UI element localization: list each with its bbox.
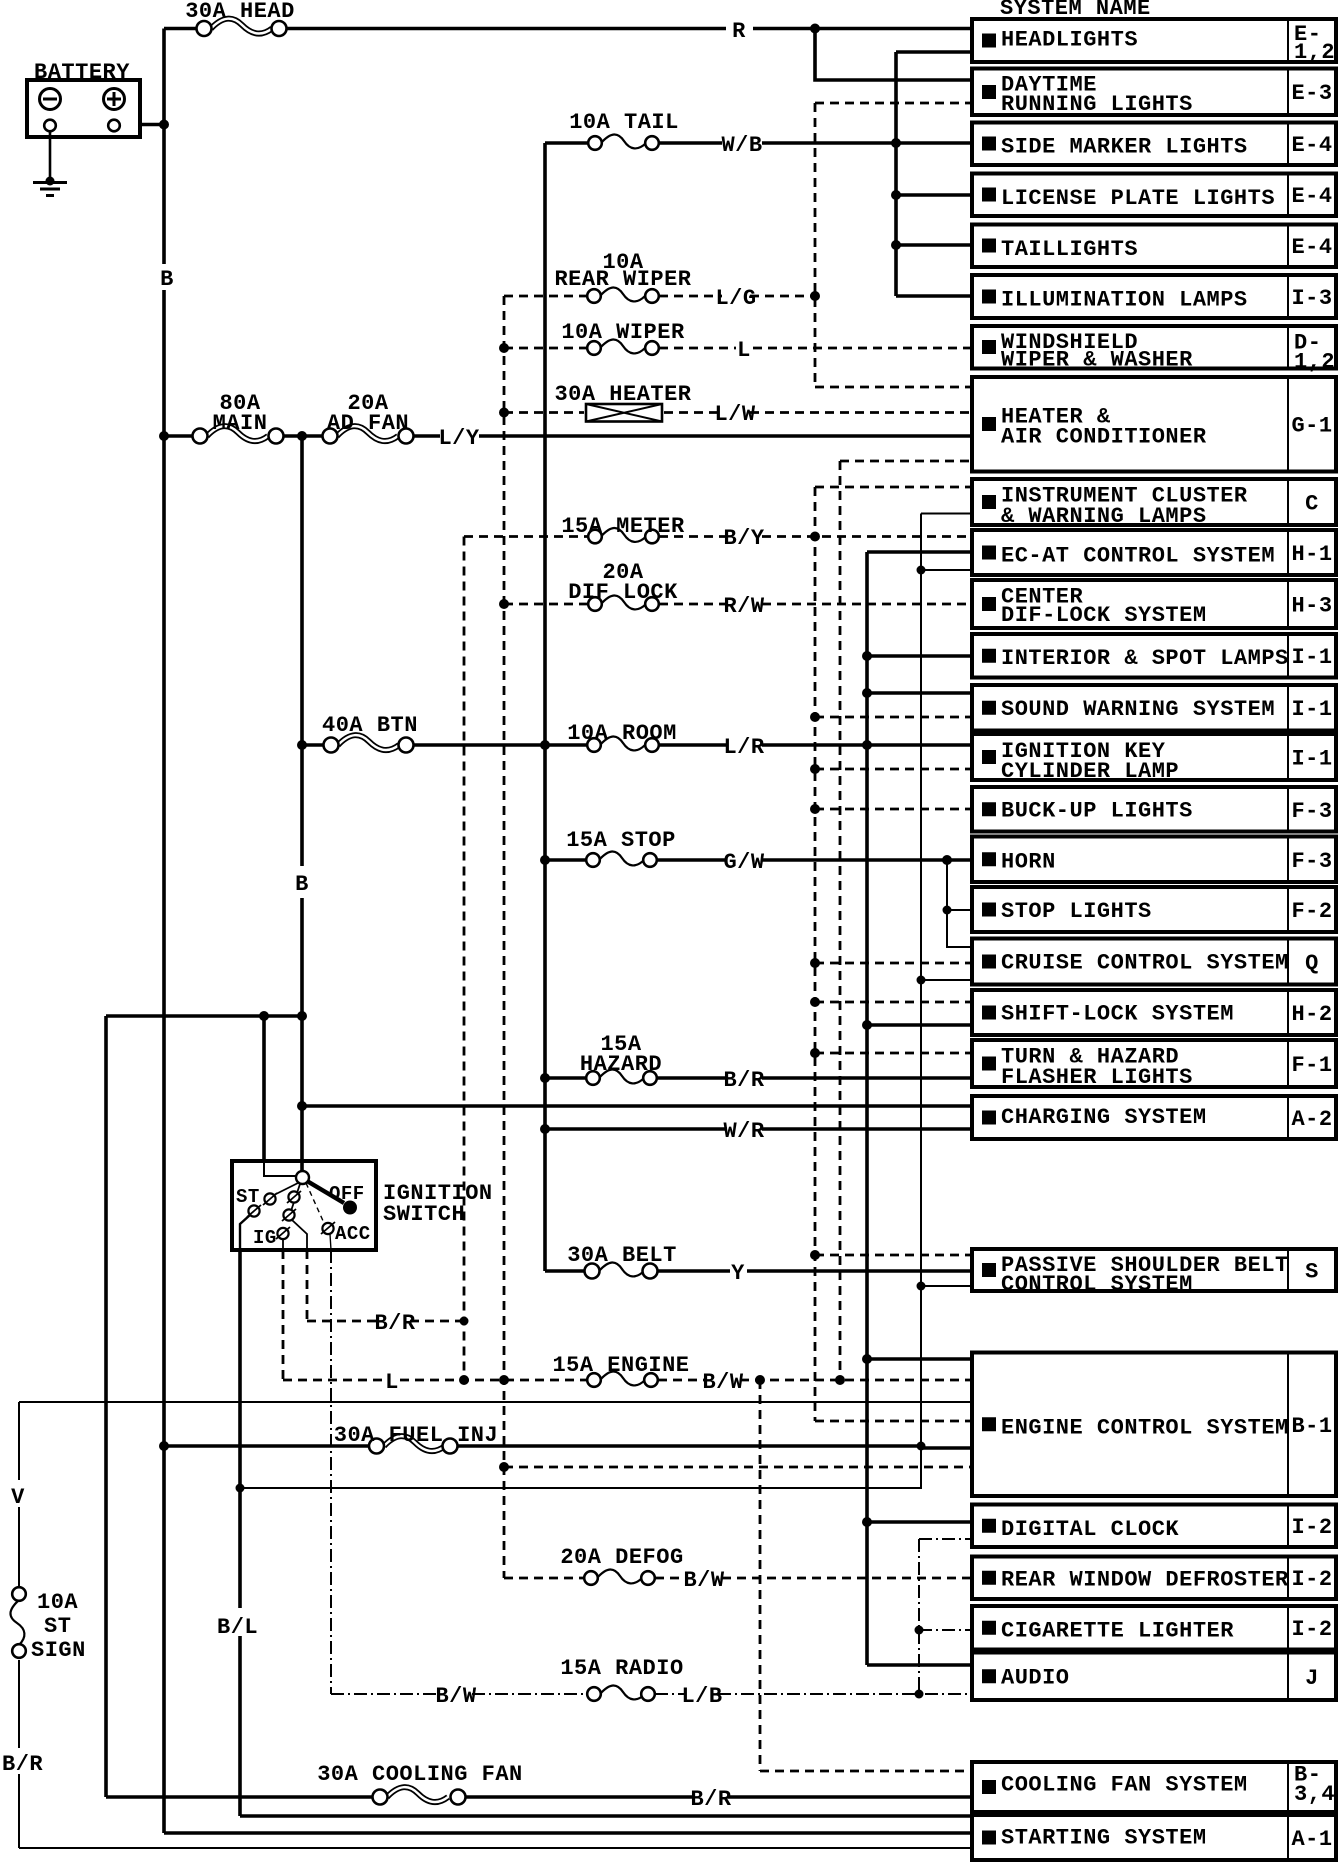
wire digital clock thick stub y1522 bbox=[867, 1520, 972, 1524]
wire charging stub y1106 bbox=[302, 1104, 972, 1108]
wire heater dashed right stub y461 bbox=[840, 460, 972, 463]
wire engine dashed stub y1421 bbox=[815, 1420, 972, 1423]
svg-text:W/R: W/R bbox=[723, 1119, 764, 1144]
wire Y 30A BELT y1271 bbox=[545, 1269, 972, 1273]
svg-text:S: S bbox=[1305, 1260, 1319, 1285]
svg-text:L/Y: L/Y bbox=[438, 426, 479, 451]
node wiper heater taps x504 bbox=[499, 343, 509, 353]
contact arms bbox=[272, 1183, 298, 1196]
svg-text:C: C bbox=[1305, 492, 1319, 517]
system box CENTER DIF-LOCK SYSTEM H-3 bbox=[972, 580, 1336, 628]
fuse 15A ENGINE bbox=[587, 1371, 658, 1386]
wire W/B 10A TAIL y143 bbox=[545, 141, 972, 145]
svg-text:AUDIO: AUDIO bbox=[1001, 1666, 1070, 1691]
svg-text:15A ENGINE: 15A ENGINE bbox=[552, 1353, 689, 1378]
contact pivot bbox=[296, 1171, 309, 1184]
fuse 10A WIPER bbox=[587, 339, 659, 354]
wire R 30A HEAD feed y28.5 bbox=[164, 27, 972, 31]
svg-text:1,2: 1,2 bbox=[1294, 350, 1335, 375]
fuse 10A TAIL bbox=[588, 134, 659, 149]
fuse 15A RADIO bbox=[587, 1685, 655, 1700]
label wire B upper bbox=[155, 264, 177, 292]
node L wire junctions y1380 bbox=[459, 1375, 469, 1385]
svg-text:INTERIOR & SPOT LAMPS: INTERIOR & SPOT LAMPS bbox=[1001, 646, 1289, 671]
fuse 10A REAR WIPER bbox=[587, 287, 659, 302]
svg-text:F-3: F-3 bbox=[1291, 849, 1332, 874]
svg-text:EC-AT CONTROL SYSTEM: EC-AT CONTROL SYSTEM bbox=[1001, 544, 1275, 569]
svg-text:Y: Y bbox=[731, 1261, 745, 1286]
wire L 10A WIPER dashed y348 bbox=[504, 347, 972, 350]
wire B/L vertical x240 bbox=[238, 1250, 242, 1816]
system box EC-AT CONTROL SYSTEM H-1 bbox=[972, 530, 1336, 575]
svg-text:I-1: I-1 bbox=[1291, 645, 1332, 670]
wire EC-AT solid stub y552 bbox=[867, 550, 972, 554]
wire instrument cluster solid stub y513.5 bbox=[921, 513, 972, 515]
wire passive belt lower stub y1286 bbox=[921, 1285, 972, 1287]
svg-text:V: V bbox=[11, 1485, 25, 1510]
node room line junctions y745 bbox=[297, 740, 307, 750]
svg-text:15A METER: 15A METER bbox=[561, 514, 685, 539]
svg-text:15A RADIO: 15A RADIO bbox=[560, 1656, 683, 1681]
svg-text:WIPER & WASHER: WIPER & WASHER bbox=[1001, 348, 1193, 373]
svg-text:HAZARD: HAZARD bbox=[580, 1052, 662, 1077]
svg-text:B/L: B/L bbox=[217, 1615, 258, 1640]
svg-text:HEADLIGHTS: HEADLIGHTS bbox=[1001, 28, 1138, 53]
wire ST to exit bbox=[240, 1215, 250, 1250]
node main fuse taps y436 bbox=[159, 431, 169, 441]
ground bbox=[33, 177, 67, 196]
wire 30A FUEL INJ y1446 bbox=[164, 1444, 921, 1448]
node B/R to riser x464 bbox=[460, 1317, 469, 1326]
system box REAR WINDOW DEFROSTER I-2 bbox=[972, 1557, 1336, 1600]
node buck-up dashed tap x815 bbox=[810, 804, 820, 814]
system box SHIFT-LOCK SYSTEM H-2 bbox=[972, 990, 1336, 1035]
svg-text:MAIN: MAIN bbox=[213, 411, 268, 436]
wire vertical x19 starter sign bbox=[18, 1402, 20, 1848]
svg-text:R: R bbox=[732, 19, 746, 44]
svg-text:L/G: L/G bbox=[715, 286, 756, 311]
node branch bus taps y1016 bbox=[259, 1011, 269, 1021]
node turn hazard dashed tap x815 bbox=[810, 1048, 820, 1058]
wire B/R 30A COOLING FAN y1797 bbox=[106, 1795, 972, 1799]
node stop line junctions y860 bbox=[540, 855, 550, 865]
node R wire junction x815 bbox=[810, 24, 820, 34]
wire engine thick stub y1448 bbox=[921, 1446, 972, 1450]
wire W/R y1129 bbox=[545, 1127, 972, 1131]
fuse 15A METER bbox=[588, 528, 659, 543]
node cruise lower tap x921 bbox=[917, 976, 926, 985]
svg-text:DIGITAL CLOCK: DIGITAL CLOCK bbox=[1001, 1517, 1179, 1542]
svg-text:10A ROOM: 10A ROOM bbox=[567, 721, 677, 746]
node passive lower tap x921 bbox=[917, 1282, 926, 1291]
system box LICENSE PLATE LIGHTS E-4 bbox=[972, 174, 1336, 217]
svg-text:SOUND WARNING SYSTEM: SOUND WARNING SYSTEM bbox=[1001, 697, 1275, 722]
svg-text:Q: Q bbox=[1305, 951, 1319, 976]
system box AUDIO J bbox=[972, 1653, 1336, 1701]
wire instrument cluster dashed stub y487 bbox=[815, 486, 972, 489]
node engine thick tap x867 bbox=[862, 1354, 872, 1364]
node engine link tap x240 bbox=[236, 1484, 245, 1493]
svg-text:15A STOP: 15A STOP bbox=[566, 828, 676, 853]
contact 2 bbox=[264, 1193, 275, 1204]
svg-text:G-1: G-1 bbox=[1291, 414, 1332, 439]
node shift solid tap x867 bbox=[862, 1020, 872, 1030]
contact ACC bbox=[322, 1223, 333, 1234]
svg-text:L: L bbox=[737, 338, 751, 363]
svg-text:E-4: E-4 bbox=[1291, 133, 1332, 158]
wire dashed vertical x307 from ignition bbox=[306, 1250, 309, 1321]
svg-text:REAR WIPER: REAR WIPER bbox=[554, 267, 691, 292]
node radio line tap x919 bbox=[915, 1690, 924, 1699]
system box SIDE MARKER LIGHTS E-4 bbox=[972, 123, 1336, 166]
svg-text:E-4: E-4 bbox=[1291, 235, 1332, 260]
svg-text:3,4: 3,4 bbox=[1294, 1782, 1335, 1807]
svg-text:AIR CONDITIONER: AIR CONDITIONER bbox=[1001, 425, 1207, 450]
svg-text:ILLUMINATION LAMPS: ILLUMINATION LAMPS bbox=[1001, 288, 1248, 313]
wire ACC to exit bbox=[330, 1234, 331, 1250]
svg-text:RUNNING LIGHTS: RUNNING LIGHTS bbox=[1001, 92, 1193, 117]
wire vertical x896 tail branch bbox=[894, 52, 898, 296]
svg-text:B: B bbox=[295, 872, 309, 897]
wire L/W 30A HEATER dashed y412 bbox=[504, 411, 972, 414]
wire IG to exit bbox=[282, 1239, 284, 1250]
wire dashed vertical x840 bbox=[839, 461, 842, 1380]
svg-text:ST: ST bbox=[44, 1614, 71, 1639]
fuse 30A HEAD bbox=[197, 19, 287, 36]
wire shift-lock dashed stub y1002 bbox=[815, 1001, 972, 1004]
system box HEATER AIR CONDITIONER G-1 bbox=[972, 377, 1336, 472]
system box PASSIVE SHOULDER BELT CONTROL SYSTEM S bbox=[972, 1249, 1336, 1297]
system box HEADLIGHTS E-1,2 bbox=[972, 19, 1336, 65]
node fuel inj to riser x921 bbox=[917, 1442, 926, 1451]
wire headlights second stub y52 bbox=[896, 50, 972, 54]
system box SOUND WARNING SYSTEM I-1 bbox=[972, 685, 1336, 731]
svg-text:B/R: B/R bbox=[690, 1787, 731, 1812]
wire cruise lower solid stub y980 bbox=[921, 979, 972, 981]
node EC-AT lower junction x921 bbox=[917, 566, 926, 575]
svg-text:STARTING SYSTEM: STARTING SYSTEM bbox=[1001, 1826, 1207, 1851]
svg-text:30A COOLING FAN: 30A COOLING FAN bbox=[317, 1762, 523, 1787]
node sound dashed tap x815 bbox=[810, 712, 820, 722]
system box ENGINE CONTROL SYSTEM B-1 bbox=[972, 1353, 1336, 1497]
svg-text:CIGARETTE LIGHTER: CIGARETTE LIGHTER bbox=[1001, 1619, 1234, 1644]
system box COOLING FAN SYSTEM B-3,4 bbox=[972, 1762, 1336, 1812]
svg-text:B: B bbox=[160, 267, 174, 292]
wire B/W L/B 15A RADIO dashdot y1694 bbox=[331, 1693, 972, 1695]
node ignition key dashed tap x815 bbox=[810, 764, 820, 774]
wire sound warning stub y693 bbox=[867, 691, 972, 695]
svg-text:10A WIPER: 10A WIPER bbox=[561, 320, 685, 345]
svg-text:& WARNING LAMPS: & WARNING LAMPS bbox=[1001, 504, 1207, 529]
wire shift-lock solid stub y1025 bbox=[867, 1023, 972, 1027]
node hazard feed tap y1078 bbox=[540, 1073, 550, 1083]
svg-text:I-2: I-2 bbox=[1291, 1617, 1332, 1642]
svg-text:I-1: I-1 bbox=[1291, 697, 1332, 722]
svg-text:BUCK-UP LIGHTS: BUCK-UP LIGHTS bbox=[1001, 799, 1193, 824]
node passive dashed tap x815 bbox=[810, 1250, 820, 1260]
node R/W junction x504 bbox=[499, 599, 509, 609]
svg-text:F-3: F-3 bbox=[1291, 799, 1332, 824]
label wire B lower bbox=[291, 868, 313, 897]
svg-text:CRUISE CONTROL SYSTEM: CRUISE CONTROL SYSTEM bbox=[1001, 951, 1289, 976]
wire main mid bus vertical x545 bbox=[543, 143, 547, 1271]
wire dashdot vertical x919 bbox=[918, 1539, 920, 1694]
svg-text:B/R: B/R bbox=[723, 1068, 764, 1093]
svg-text:B/W: B/W bbox=[683, 1568, 724, 1593]
battery BT1 bbox=[27, 80, 140, 137]
svg-text:CONTROL SYSTEM: CONTROL SYSTEM bbox=[1001, 1272, 1193, 1297]
wire illumination stub y296 bbox=[896, 294, 972, 298]
contact 3 bbox=[288, 1191, 299, 1202]
svg-text:COOLING FAN SYSTEM: COOLING FAN SYSTEM bbox=[1001, 1773, 1248, 1798]
fuse 20A AD FAN bbox=[323, 426, 414, 443]
node engine dashed tap x504 bbox=[499, 1462, 509, 1472]
wire B/W 20A DEFOG dashed y1578 bbox=[504, 1577, 972, 1580]
svg-text:10A TAIL: 10A TAIL bbox=[569, 110, 679, 135]
svg-text:I-3: I-3 bbox=[1291, 286, 1332, 311]
svg-text:SWITCH: SWITCH bbox=[383, 1202, 465, 1227]
wire thin engine feed y1402 bbox=[19, 1401, 972, 1403]
wire B/R 15A HAZARD y1078 bbox=[545, 1076, 972, 1080]
fuse 80A MAIN bbox=[193, 426, 284, 443]
svg-text:DIF LOCK: DIF LOCK bbox=[568, 580, 678, 605]
wire R junction drop to daytime y80 bbox=[815, 29, 972, 81]
wire branch bus y1016 bbox=[106, 1014, 302, 1018]
wire BTN bus vertical x302 bbox=[300, 436, 304, 1161]
wire starting stub y1833 bbox=[164, 1831, 972, 1835]
svg-text:HORN: HORN bbox=[1001, 850, 1056, 875]
node B/Y junction x815 bbox=[810, 532, 820, 542]
wire B/Y 15A METER dashed y536.5 bbox=[464, 535, 972, 538]
wire EC-AT lower solid stub y570 bbox=[921, 569, 972, 571]
wire vertical x264 to ignition switch bbox=[262, 1016, 266, 1161]
svg-text:L/B: L/B bbox=[681, 1684, 722, 1709]
svg-text:AD FAN: AD FAN bbox=[327, 411, 409, 436]
wire dashed vertical x504 bbox=[503, 296, 506, 1578]
node stop lights tap x947 bbox=[943, 906, 952, 915]
svg-text:SHIFT-LOCK SYSTEM: SHIFT-LOCK SYSTEM bbox=[1001, 1002, 1234, 1027]
svg-text:F-1: F-1 bbox=[1291, 1053, 1332, 1078]
system box CIGARETTE LIGHTER I-2 bbox=[972, 1606, 1336, 1650]
svg-text:IG: IG bbox=[253, 1227, 277, 1249]
wire engine dashed stub y1467 bbox=[504, 1466, 972, 1469]
wire stop lights stub y910 bbox=[947, 860, 972, 947]
node tail branch junctions x896 bbox=[891, 138, 901, 148]
system box WINDSHIELD WIPER WASHER D-1,2 bbox=[972, 326, 1336, 375]
svg-text:BATTERY: BATTERY bbox=[34, 60, 130, 85]
system box STARTING SYSTEM A-1 bbox=[972, 1815, 1336, 1860]
fuse 15A HAZARD bbox=[586, 1069, 657, 1084]
system box INTERIOR SPOT LAMPS I-1 bbox=[972, 634, 1336, 678]
system box TURN HAZARD FLASHER LIGHTS F-1 bbox=[972, 1040, 1336, 1090]
svg-text:G/W: G/W bbox=[723, 850, 764, 875]
wire L/Y main feed y436 bbox=[164, 434, 972, 438]
wire turn hazard dashed stub y1053 bbox=[815, 1052, 972, 1055]
wire L/G 10A REAR WIPER dashed y296 bbox=[504, 295, 815, 298]
svg-text:A-1: A-1 bbox=[1291, 1827, 1332, 1852]
svg-text:10A: 10A bbox=[37, 1590, 78, 1615]
svg-text:B/W: B/W bbox=[435, 1684, 476, 1709]
wire dashed vertical x283 from ignition IG bbox=[282, 1250, 285, 1380]
system box CHARGING SYSTEM A-2 bbox=[972, 1096, 1336, 1139]
system box ILLUMINATION LAMPS I-3 bbox=[972, 275, 1336, 318]
svg-text:J: J bbox=[1305, 1666, 1319, 1691]
fuse 10A ROOM bbox=[587, 736, 659, 751]
svg-text:R/W: R/W bbox=[723, 594, 764, 619]
wire contact4 to B/R exit bbox=[292, 1220, 307, 1250]
fuse 20A DIF LOCK bbox=[588, 595, 659, 610]
system box DAYTIME RUNNING LIGHTS E-3 bbox=[972, 69, 1336, 118]
wire daytime dashed stub y103 bbox=[815, 102, 972, 105]
node L/G junction x815 bbox=[810, 291, 820, 301]
wire passive belt dashed stub y1255 bbox=[815, 1254, 972, 1257]
svg-text:REAR WINDOW DEFROSTER: REAR WINDOW DEFROSTER bbox=[1001, 1568, 1289, 1593]
wire interior lamps stub y656 bbox=[867, 654, 972, 658]
system box TAILLIGHTS E-4 bbox=[972, 225, 1336, 268]
wire engine lower link x921 bbox=[240, 1448, 921, 1488]
wire pivot feed inside switch bbox=[264, 1161, 302, 1176]
FUSES bbox=[10, 19, 662, 1805]
label wire B/L bbox=[215, 1608, 265, 1640]
wire battery positive to bus bbox=[119, 123, 164, 127]
node W/R tap y1129 bbox=[540, 1124, 550, 1134]
svg-text:SIGN: SIGN bbox=[31, 1638, 86, 1663]
svg-text:ENGINE CONTROL SYSTEM: ENGINE CONTROL SYSTEM bbox=[1001, 1416, 1289, 1441]
wire dashed vertical x464 bbox=[463, 537, 466, 1381]
contact IG bbox=[277, 1228, 288, 1239]
PARTS bbox=[27, 80, 376, 1250]
rotor arm to OFF bbox=[307, 1181, 344, 1203]
wire engine thick stub y1359 bbox=[867, 1357, 972, 1361]
wire cooling fan dashed stub y1771 bbox=[760, 1770, 972, 1773]
svg-text:E-4: E-4 bbox=[1291, 184, 1332, 209]
wire dashed vertical x815 lower segment bbox=[814, 487, 817, 1421]
wire digital clock dashdot stub y1539 bbox=[919, 1538, 972, 1540]
svg-text:STOP LIGHTS: STOP LIGHTS bbox=[1001, 899, 1152, 924]
wire L and B/W 15A ENGINE dashed y1380 bbox=[283, 1379, 972, 1382]
system box DIGITAL CLOCK I-2 bbox=[972, 1505, 1336, 1548]
svg-text:30A HEATER: 30A HEATER bbox=[554, 382, 691, 407]
wire sound warning dashed stub y717 bbox=[815, 716, 972, 719]
svg-text:B-1: B-1 bbox=[1291, 1414, 1332, 1439]
fuse 30A FUEL INJ bbox=[369, 1436, 458, 1453]
contact 4 bbox=[283, 1209, 294, 1220]
svg-text:B/W: B/W bbox=[702, 1370, 743, 1395]
svg-text:I-1: I-1 bbox=[1291, 747, 1332, 772]
svg-text:F-2: F-2 bbox=[1291, 899, 1332, 924]
svg-text:FLASHER LIGHTS: FLASHER LIGHTS bbox=[1001, 1065, 1193, 1090]
svg-text:H-3: H-3 bbox=[1291, 594, 1332, 619]
svg-text:40A BTN: 40A BTN bbox=[322, 713, 418, 738]
svg-text:1,2: 1,2 bbox=[1294, 40, 1335, 65]
svg-text:I-2: I-2 bbox=[1291, 1515, 1332, 1540]
svg-text:CYLINDER LAMP: CYLINDER LAMP bbox=[1001, 759, 1179, 784]
wire battery negative to ground bbox=[49, 131, 52, 181]
node digital clock tap x867 bbox=[862, 1517, 872, 1527]
node shift dashed tap x815 bbox=[810, 997, 820, 1007]
wire thick vertical x867 bbox=[865, 552, 869, 1665]
svg-text:L/W: L/W bbox=[714, 402, 755, 427]
wire audio thick stub y1665 bbox=[867, 1663, 972, 1667]
svg-text:ST: ST bbox=[236, 1186, 260, 1208]
svg-text:LICENSE PLATE LIGHTS: LICENSE PLATE LIGHTS bbox=[1001, 186, 1275, 211]
fuse 30A BELT bbox=[585, 1262, 658, 1278]
fuse 15A STOP bbox=[586, 851, 657, 866]
wire battery B bus vertical x164 bbox=[162, 29, 166, 1834]
wire thin vertical x921 bbox=[920, 514, 922, 1449]
svg-text:30A BELT: 30A BELT bbox=[567, 1243, 677, 1268]
system box STOP LIGHTS F-2 bbox=[972, 887, 1336, 932]
node battery bus junction bbox=[159, 120, 169, 130]
fuse 30A HEATER fusible link bbox=[586, 404, 662, 422]
fuse 10A ST SIGN vertical bbox=[10, 1587, 25, 1658]
svg-text:TAILLIGHTS: TAILLIGHTS bbox=[1001, 237, 1138, 262]
svg-text:W/B: W/B bbox=[721, 133, 762, 158]
SYSTEM BOXES bbox=[972, 19, 1336, 1860]
wire license plate stub y195 bbox=[896, 193, 972, 197]
svg-text:30A HEAD: 30A HEAD bbox=[185, 0, 295, 24]
svg-text:L: L bbox=[385, 1370, 399, 1395]
wire R/W 20A DIF LOCK dashed y604 bbox=[504, 603, 972, 606]
contact ST bbox=[248, 1205, 259, 1216]
wire taillights stub y245 bbox=[896, 243, 972, 247]
svg-text:B/Y: B/Y bbox=[723, 526, 764, 551]
svg-text:B/R: B/R bbox=[2, 1752, 43, 1777]
node cruise dashed tap x815 bbox=[810, 958, 820, 968]
fuse 20A DEFOG bbox=[584, 1569, 655, 1584]
wire buck-up dashed stub y809 bbox=[815, 808, 972, 811]
wire G/W 15A STOP y860 bbox=[545, 858, 972, 862]
svg-text:20A DEFOG: 20A DEFOG bbox=[560, 1545, 683, 1570]
wire heater box dashed stub y387 bbox=[815, 386, 972, 389]
wire cruise dashed stub y963 bbox=[815, 962, 972, 965]
svg-text:H-1: H-1 bbox=[1291, 542, 1332, 567]
fuse 30A COOLING FAN bbox=[373, 1787, 466, 1804]
node interior sound taps x867 bbox=[862, 651, 872, 661]
wire dashed vertical x760 bbox=[759, 1380, 762, 1771]
system box HORN F-3 bbox=[972, 837, 1336, 883]
fuse 40A BTN bbox=[324, 735, 414, 752]
svg-text:ACC: ACC bbox=[335, 1223, 371, 1245]
svg-text:I-2: I-2 bbox=[1291, 1567, 1332, 1592]
svg-text:SYSTEM NAME: SYSTEM NAME bbox=[1000, 0, 1151, 21]
svg-text:DIF-LOCK SYSTEM: DIF-LOCK SYSTEM bbox=[1001, 603, 1207, 628]
ignition switch SW1 bbox=[232, 1161, 376, 1250]
node fuel inj tap x164 bbox=[159, 1441, 169, 1451]
wire starting stub y1848 bbox=[19, 1847, 972, 1849]
wire starting stub y1816 bbox=[240, 1814, 972, 1818]
system box IGNITION KEY CYLINDER LAMP I-1 bbox=[972, 734, 1336, 784]
node charging tap x302 bbox=[297, 1101, 307, 1111]
svg-text:B/R: B/R bbox=[374, 1311, 415, 1336]
svg-text:L/R: L/R bbox=[723, 735, 764, 760]
wire dashdot vertical x331 from ignition ACC bbox=[330, 1250, 332, 1694]
wire ignition key dashed stub y769 bbox=[815, 768, 972, 771]
system box BUCK-UP LIGHTS F-3 bbox=[972, 787, 1336, 832]
system box INSTRUMENT CLUSTER WARNING LAMPS C bbox=[972, 479, 1336, 529]
wire L/R 40A BTN and 10A ROOM y745 bbox=[302, 743, 972, 747]
svg-text:OFF: OFF bbox=[329, 1183, 365, 1205]
svg-text:E-3: E-3 bbox=[1291, 81, 1332, 106]
svg-text:A-2: A-2 bbox=[1291, 1107, 1332, 1132]
svg-text:SIDE MARKER LIGHTS: SIDE MARKER LIGHTS bbox=[1001, 135, 1248, 160]
node cigarette tap x919 bbox=[915, 1626, 924, 1635]
wire cigarette dashdot stub y1630 bbox=[919, 1629, 972, 1631]
rotor dashed to ACC bbox=[306, 1183, 324, 1223]
wire dashed vertical x815 upper segment bbox=[814, 103, 817, 387]
wire B/R ignition dashed y1321 bbox=[307, 1320, 464, 1323]
svg-text:CHARGING SYSTEM: CHARGING SYSTEM bbox=[1001, 1105, 1207, 1130]
